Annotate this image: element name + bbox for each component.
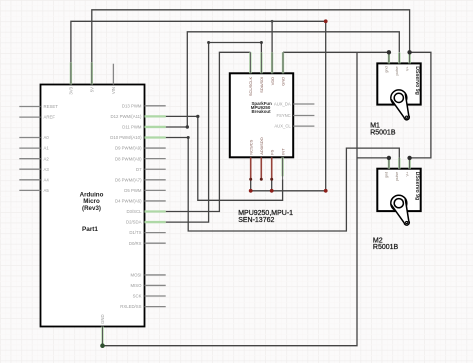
svg-text:DSservo 9g: DSservo 9g [414, 66, 420, 95]
svg-text:R5001B: R5001B [373, 244, 399, 251]
svg-text:VIN: VIN [111, 87, 116, 94]
pin RESET [19, 106, 40, 108]
pin SCK [145, 295, 166, 297]
pin D8 PWM/(A8) [145, 158, 166, 160]
pin D4 PWM/(A6) [145, 200, 166, 202]
junction NCS 3V3 [249, 189, 253, 193]
svg-text:Breakout: Breakout [252, 109, 272, 114]
wire GND branch to M2 gnd [357, 157, 389, 159]
svg-text:AUX_DA: AUX_DA [274, 102, 291, 107]
svg-text:AREF: AREF [44, 115, 56, 120]
svg-text:V+: V+ [405, 66, 409, 72]
svg-text:SCL/SCLK: SCL/SCLK [248, 76, 253, 96]
wire 3V3 net: Arduino 3V3 up, across, down right of MPU [71, 21, 326, 191]
svg-text:VDD: VDD [270, 77, 275, 86]
svg-text:A5: A5 [44, 188, 50, 193]
wire D11 to M1 pulse [166, 32, 400, 127]
servo M1 horn [391, 90, 407, 106]
svg-text:D4 PWM/(A6): D4 PWM/(A6) [115, 199, 142, 204]
svg-text:D2/SDA: D2/SDA [126, 220, 142, 225]
pin D6 PWM/(A7) [145, 179, 166, 181]
pin MPU GND (connected) [282, 52, 284, 73]
wire 5V net: M1 V+ to M2 V+ [410, 52, 431, 158]
pin MPU AUX_CL [293, 125, 314, 127]
svg-text:D10 PWM/(A10): D10 PWM/(A10) [110, 135, 142, 140]
svg-text:MISO: MISO [131, 283, 143, 288]
pin MOSI [145, 274, 166, 276]
pin MPU SDA/SDI (connected) [260, 52, 262, 73]
svg-text:D5 PWM: D5 PWM [124, 188, 142, 193]
pin MPU AD0/SDO (red) [260, 157, 262, 179]
svg-text:D6 PWM/(A7): D6 PWM/(A7) [115, 177, 142, 182]
bend D11 wire [186, 125, 189, 128]
pin RXLED/SS [145, 306, 166, 308]
pin D13 PWM [145, 105, 166, 107]
wire 3V3 to MPU VDD [271, 21, 273, 52]
svg-text:D1/TX: D1/TX [129, 230, 141, 235]
pin M2 V+ (connected) [408, 158, 410, 169]
pin AREF [19, 116, 40, 118]
pin D2/SDA (connected) [145, 221, 166, 223]
svg-text:A3: A3 [44, 167, 50, 172]
pin MPU FS (red) [271, 157, 273, 179]
pin D1/TX [145, 232, 166, 234]
svg-text:D8 PWM/(A8): D8 PWM/(A8) [115, 156, 142, 161]
wire D12 to MPU INT [166, 116, 283, 200]
pin MPU AUX_DA [293, 103, 314, 105]
junction M2 gnd [387, 156, 391, 160]
svg-text:SEN-13762: SEN-13762 [238, 217, 274, 224]
svg-text:5V: 5V [90, 87, 95, 92]
junction M1 V+ [407, 50, 411, 54]
pin A0 [19, 137, 40, 139]
pin A3 [19, 168, 40, 170]
wire D10 to M2 pulse [166, 138, 400, 232]
svg-text:AD0/SDO: AD0/SDO [259, 137, 264, 155]
pin MPU INT (connected) [281, 157, 283, 176]
svg-text:gnd: gnd [385, 172, 389, 178]
svg-text:NCS/CS: NCS/CS [248, 139, 253, 154]
svg-text:DSservo 9g: DSservo 9g [414, 172, 420, 201]
pin M2 gnd (connected) [388, 158, 390, 169]
pin MPU NCS/CS (red) [250, 157, 252, 179]
junction M1 gnd [387, 50, 391, 54]
servo M2 RS001B body [377, 169, 420, 211]
svg-text:D12 PWM/(A11): D12 PWM/(A11) [111, 114, 143, 119]
junction GND corner [100, 343, 105, 348]
bend SDA wire right [260, 41, 263, 44]
svg-text:AUX_CL: AUX_CL [274, 124, 291, 129]
svg-text:INT: INT [280, 148, 285, 155]
pin M2 pulse (connected) [398, 158, 400, 169]
svg-text:R5001B: R5001B [370, 129, 396, 136]
pin A1 [19, 147, 40, 149]
bend D12 wire [196, 115, 199, 118]
pin M1 pulse (connected) [398, 53, 400, 64]
pin MPU SCL/SCLK (connected) [249, 52, 251, 73]
pin MISO [145, 284, 166, 286]
pin D9 PWM/(A9) [145, 147, 166, 149]
wire GND horizontal row: MPU GND to M1 gnd [283, 51, 389, 53]
svg-text:RESET: RESET [44, 104, 59, 109]
terminal NCS [249, 178, 252, 181]
part body MPU9250 breakout U-MPU-1 [230, 73, 293, 157]
svg-text:A0: A0 [44, 135, 50, 140]
svg-text:FSYNC: FSYNC [276, 113, 290, 118]
pin VIN [112, 64, 114, 85]
pin D12 PWM/(A11) (connected) [145, 115, 166, 117]
svg-text:Part1: Part1 [82, 226, 98, 233]
pin M1 gnd (connected) [388, 53, 390, 64]
terminal FS [270, 178, 273, 181]
servo M2 horn [391, 195, 407, 211]
pin D11 PWM (connected) [145, 126, 166, 128]
svg-text:D7: D7 [136, 167, 142, 172]
wire 5V net: Arduino 5V up, across top, down to M1 V+ [92, 10, 410, 63]
pin D3/SCL (connected) [145, 210, 166, 212]
pin M1 V+ (connected) [408, 53, 410, 64]
pin D10 PWM/(A10) (connected) [145, 136, 166, 138]
pin MPU VDD (connected) [271, 52, 273, 73]
svg-text:(Rev3): (Rev3) [82, 205, 101, 212]
pin 5V (connected) [91, 62, 93, 84]
wire MPU NCS pin drop [250, 179, 252, 191]
pin D0/RX [145, 242, 166, 244]
wire D3/SCL to MPU SCL [166, 52, 251, 211]
svg-text:gnd: gnd [385, 66, 389, 72]
wire GND net: Arduino GND down, right along bottom, up to row Y1 [103, 52, 358, 345]
pin A4 [19, 179, 40, 181]
pin 3V3 (connected) [70, 62, 72, 84]
servo M1 RS001B body [377, 63, 420, 104]
svg-text:RXLED/SS: RXLED/SS [120, 304, 141, 309]
junction M2 V+ [407, 156, 411, 160]
bend D10 wire [187, 136, 190, 139]
junction FS 3V3 [270, 189, 274, 193]
svg-text:pulse: pulse [395, 66, 399, 75]
svg-text:3V3: 3V3 [69, 86, 74, 94]
svg-text:FS: FS [269, 149, 274, 154]
wire MPU FS pin drop [271, 179, 273, 191]
pin D5 PWM [145, 189, 166, 191]
svg-text:A4: A4 [44, 177, 50, 182]
svg-text:D13 PWM: D13 PWM [122, 103, 142, 108]
svg-text:D11 PWM: D11 PWM [122, 125, 142, 130]
svg-text:A2: A2 [44, 156, 50, 161]
pin D7 [145, 168, 166, 170]
terminal AD0/SDO [260, 178, 263, 181]
pin A5 [19, 189, 40, 191]
bend 3V3 corner [324, 19, 328, 23]
part body Arduino Micro [41, 85, 145, 327]
svg-text:D9 PWM/(A9): D9 PWM/(A9) [115, 146, 142, 151]
pin A2 [19, 158, 40, 160]
svg-text:SCK: SCK [133, 294, 142, 299]
svg-text:GND: GND [100, 314, 105, 324]
junction VDD 3V3 [271, 20, 274, 23]
svg-text:pulse: pulse [395, 172, 399, 181]
wire D2/SDA to MPU SDA [166, 43, 262, 223]
svg-text:SDA/SDI: SDA/SDI [259, 77, 264, 93]
pin MPU FSYNC [293, 115, 314, 117]
svg-text:MPU9250,MPU-1: MPU9250,MPU-1 [238, 210, 293, 217]
svg-text:D0/RX: D0/RX [129, 241, 142, 246]
svg-text:V+: V+ [405, 171, 409, 177]
svg-text:D3/SCL: D3/SCL [126, 209, 142, 214]
junction 3V3 bottom right [324, 189, 328, 193]
pin GND (connected) [101, 327, 103, 346]
svg-text:GND: GND [281, 77, 286, 86]
svg-text:MOSI: MOSI [131, 273, 142, 278]
svg-text:A1: A1 [44, 146, 50, 151]
bend SDA wire left [207, 41, 210, 44]
